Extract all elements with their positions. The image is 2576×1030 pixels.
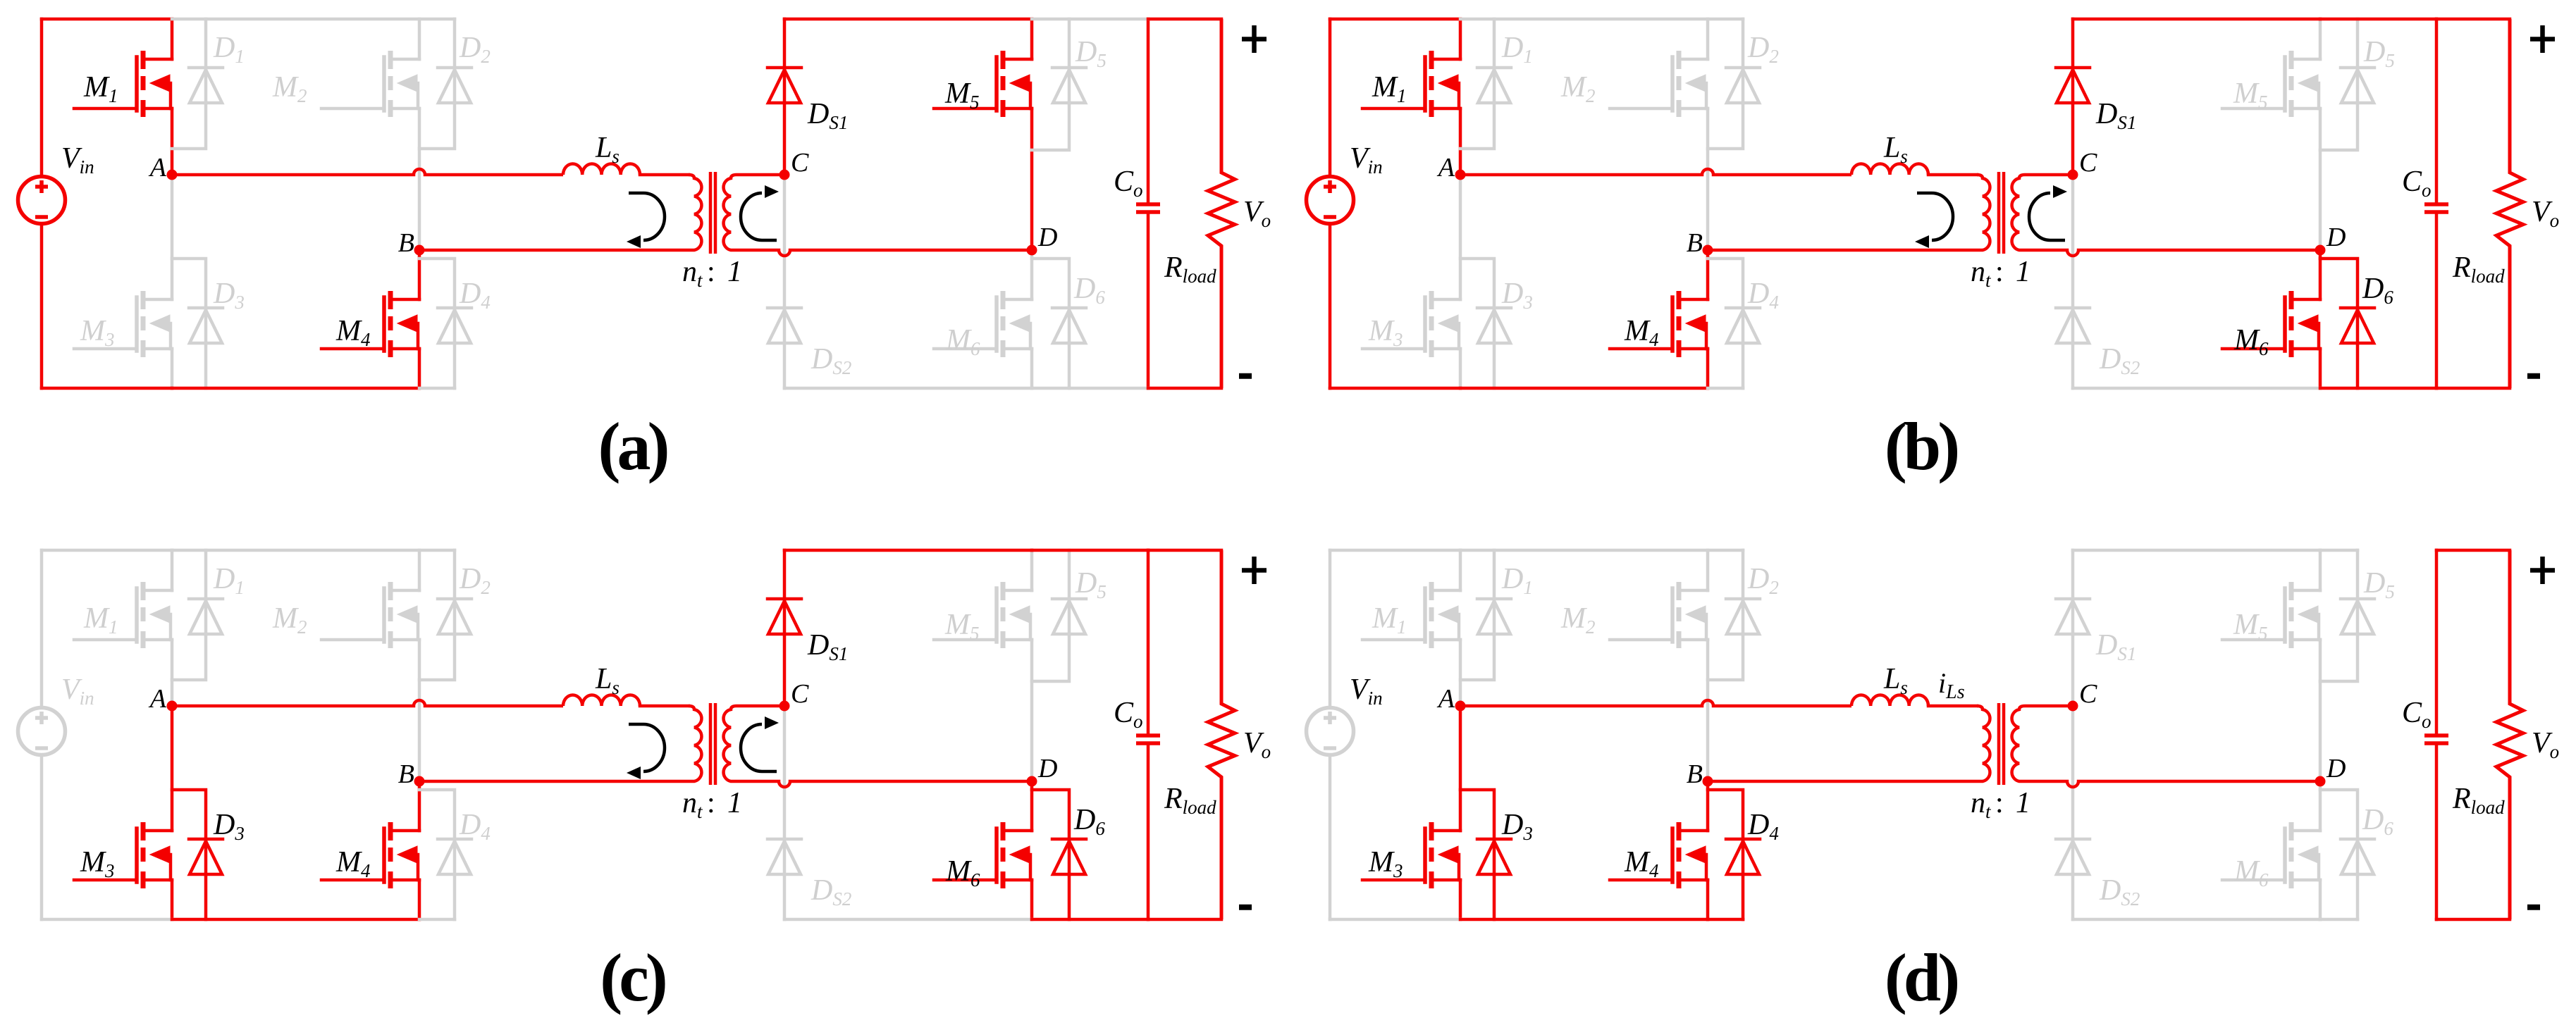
secondary current direction arrow xyxy=(2029,193,2065,240)
node A xyxy=(167,701,178,712)
node D xyxy=(2315,245,2326,256)
diode D6 xyxy=(1032,259,1069,308)
output minus terminal xyxy=(2527,373,2540,379)
node C xyxy=(779,701,790,712)
diode D2 xyxy=(1742,550,1745,599)
wire: bottom rail Vin-M3 xyxy=(1330,918,1460,922)
diode D5 xyxy=(2356,19,2360,68)
node D xyxy=(1027,245,1037,256)
node B xyxy=(1703,245,1713,256)
node B xyxy=(414,776,425,787)
diode D3 xyxy=(172,790,206,839)
wire: node A to M3 drain xyxy=(1459,706,1462,831)
wire: M2 source to node B xyxy=(1706,640,1710,781)
wire: M3 source to bottom rail xyxy=(1459,349,1462,388)
transistor M2 xyxy=(1679,59,1708,108)
resistor Rload xyxy=(1208,19,1235,388)
wire: secondary top to node C xyxy=(2025,705,2073,708)
diode D6 xyxy=(2320,259,2358,308)
diode D6 xyxy=(1032,790,1069,839)
wire: M2 drain xyxy=(418,550,421,590)
svg-text:1: 1 xyxy=(727,256,742,288)
svg-text:D: D xyxy=(2326,223,2346,252)
inductor Ls xyxy=(1851,695,1928,706)
wire: secondary top to node C xyxy=(2025,173,2073,177)
wire: Ls to transformer primary xyxy=(640,173,689,177)
diode D1 xyxy=(1493,550,1496,599)
wire: Vin to top-left rail xyxy=(1329,550,1332,706)
diode DS2 xyxy=(2056,308,2090,343)
wire: top rail M5-D5 xyxy=(2320,549,2358,552)
wire: M4 source to bottom rail xyxy=(1706,880,1710,919)
capacitor Co xyxy=(2435,550,2439,919)
transistor M3 xyxy=(1431,831,1460,880)
wire: bottom rail Ds2-M6 xyxy=(2073,387,2320,390)
svg-text:D: D xyxy=(2326,754,2346,783)
wire: node D to M6 drain xyxy=(2319,250,2322,299)
wire: bottom rail M4-D4 xyxy=(1708,387,1743,390)
wire: top rail M1-D2 xyxy=(1460,549,1743,552)
wire: top rail Vin-M1 xyxy=(42,18,172,21)
node A xyxy=(1455,701,1466,712)
wire: node A to Ls (hop over M2 leg) xyxy=(172,700,563,706)
wire: top rail M5-Co xyxy=(1032,549,1148,552)
output minus terminal xyxy=(1239,373,1252,379)
svg-text:A: A xyxy=(1436,153,1455,182)
wire: bottom rail Co-Rload xyxy=(1148,387,1221,390)
primary current direction arrow xyxy=(629,193,665,240)
transistor M3 xyxy=(1431,299,1460,349)
transformer primary winding xyxy=(1977,706,1990,781)
node C xyxy=(2068,170,2078,180)
svg-text::: : xyxy=(1995,787,2004,819)
transformer secondary winding xyxy=(2012,706,2025,781)
transistor M1 xyxy=(1431,59,1460,108)
diode DS1 xyxy=(2071,550,2075,599)
diode D3 xyxy=(1460,259,1494,308)
diode DS1 xyxy=(783,19,787,68)
wire: top rail Ds1-M5 xyxy=(784,549,1032,552)
wire: M2 source to node B xyxy=(418,108,421,250)
inductor Ls xyxy=(563,163,640,175)
wire: bottom rail M6-Co xyxy=(1032,918,1148,922)
wire: Ls to transformer primary xyxy=(1928,705,1977,708)
svg-text:B: B xyxy=(1687,228,1703,258)
secondary current direction arrow xyxy=(741,193,777,240)
wire: bottom rail M3-M4 xyxy=(1460,918,1708,922)
wire: Vin to bottom rail xyxy=(1329,757,1332,919)
wire: M5 drain xyxy=(1030,550,1034,590)
wire: secondary bottom to node D (hop over Ds2 leg) xyxy=(2025,781,2320,787)
wire: M5 source to node D xyxy=(1030,108,1034,250)
voltage source Vin (a) xyxy=(18,177,66,224)
wire: bottom rail Vin-M3 xyxy=(42,918,172,922)
resistor Rload xyxy=(2496,550,2523,919)
node A xyxy=(167,170,178,180)
wire: top rail M1-D2 xyxy=(172,549,455,552)
inductor Ls xyxy=(1851,163,1928,175)
transistor M6 xyxy=(1003,831,1032,880)
transistor M2 xyxy=(390,590,419,640)
wire: bottom rail Vin-M3 xyxy=(1330,387,1460,390)
wire: secondary top to node C xyxy=(737,173,784,177)
wire: top rail M5-Co xyxy=(1032,18,1148,21)
wire: Vin to top-left rail xyxy=(40,19,44,175)
wire: M5 drain xyxy=(2319,550,2322,590)
wire: bottom rail M4-D4 xyxy=(419,387,455,390)
wire: node B to M4 drain xyxy=(1706,781,1710,831)
wire: Vin to bottom rail xyxy=(40,225,44,388)
diode DS2 xyxy=(2056,839,2090,874)
wire: M1 drain xyxy=(1459,550,1462,590)
output minus terminal xyxy=(2527,905,2540,910)
wire: node B to M4 drain xyxy=(1706,250,1710,299)
resistor Rload xyxy=(1208,550,1235,919)
wire: Vin to bottom rail xyxy=(1329,225,1332,388)
resistor Rload xyxy=(2496,19,2523,388)
wire: top rail Vin-M1 xyxy=(1330,549,1460,552)
transistor M6 xyxy=(1003,299,1032,349)
diode DS1 xyxy=(2071,19,2075,68)
transistor M5 xyxy=(2291,59,2320,108)
wire: node A to M3 drain xyxy=(171,175,174,299)
diode D1 xyxy=(204,550,208,599)
wire: bottom rail Ds2-M6 xyxy=(784,918,1032,922)
wire: bottom rail M6-Co xyxy=(1032,387,1148,390)
wire: primary bottom to node B xyxy=(1708,780,1977,783)
diode D4 xyxy=(419,790,455,839)
diode D1 xyxy=(1493,19,1496,68)
transistor M4 xyxy=(390,831,419,880)
svg-text:A: A xyxy=(148,153,167,182)
wire: M3 source to bottom rail xyxy=(171,349,174,388)
wire: node A to Ls (hop over M2 leg) xyxy=(1460,169,1851,175)
node C xyxy=(779,170,790,180)
transformer primary winding xyxy=(689,175,701,250)
diode D2 xyxy=(453,19,457,68)
wire: M2 drain xyxy=(1706,550,1710,590)
svg-text:D: D xyxy=(1037,754,1057,783)
diode D6 xyxy=(2320,790,2358,839)
wire: top rail Ds1-M5 xyxy=(784,18,1032,21)
wire: top rail Ds1-M5 xyxy=(2073,549,2320,552)
wire: top rail M1-D2 xyxy=(172,18,455,21)
node B xyxy=(1703,776,1713,787)
wire: M1 source to node A xyxy=(171,108,174,175)
capacitor Co xyxy=(1147,550,1150,919)
svg-text::: : xyxy=(707,256,715,288)
wire: M1 drain xyxy=(171,550,174,590)
transformer primary winding xyxy=(1977,175,1990,250)
transistor M4 xyxy=(390,299,419,349)
wire: node A to M3 drain xyxy=(1459,175,1462,299)
output minus terminal xyxy=(1239,905,1252,910)
transformer core xyxy=(1999,172,2004,254)
wire: node A to M3 drain xyxy=(171,706,174,831)
wire: M4 source to bottom rail xyxy=(418,880,421,919)
wire: node B to M4 drain xyxy=(418,781,421,831)
transistor M5 xyxy=(1003,59,1032,108)
wire: C to Ds2 xyxy=(783,175,787,308)
wire: M6 source to bottom rail xyxy=(2319,880,2322,919)
svg-text:C: C xyxy=(2079,148,2097,178)
wire: top rail Co-Rload xyxy=(1148,549,1221,552)
transistor M6 xyxy=(2291,831,2320,880)
transformer primary winding xyxy=(689,706,701,781)
svg-text:C: C xyxy=(2079,679,2097,709)
transformer core xyxy=(1999,703,2004,785)
wire: top rail M5-Co xyxy=(2320,18,2436,21)
svg-text:B: B xyxy=(398,228,414,258)
wire: bottom rail M4-D4 xyxy=(1708,918,1743,922)
transformer secondary winding xyxy=(724,175,737,250)
diode DS2 xyxy=(768,308,801,343)
output plus terminal xyxy=(2530,557,2555,584)
diode D5 xyxy=(1068,19,1071,68)
wire: C to Ds2 xyxy=(2071,175,2075,308)
wire: M6 source to bottom rail xyxy=(1030,349,1034,388)
wire: M4 source to bottom rail xyxy=(418,349,421,388)
svg-text::: : xyxy=(707,787,715,819)
transistor M2 xyxy=(390,59,419,108)
wire: M4 source to bottom rail xyxy=(1706,349,1710,388)
svg-text:1: 1 xyxy=(727,787,742,819)
output plus terminal xyxy=(2530,25,2555,53)
transformer core xyxy=(710,703,715,785)
wire: primary bottom to node B xyxy=(419,249,689,252)
diode D5 xyxy=(2356,550,2360,599)
wire: M1 source to node A xyxy=(1459,108,1462,175)
wire: Vin to top-left rail xyxy=(1329,19,1332,175)
wire: bottom rail Co-Rload xyxy=(2436,918,2510,922)
wire: bottom rail M6-Co xyxy=(2320,387,2436,390)
wire: top rail Vin-M1 xyxy=(1330,18,1460,21)
wire: bottom rail Vin-M3 xyxy=(42,387,172,390)
svg-text:C: C xyxy=(791,679,809,709)
voltage source Vin (b) xyxy=(1307,177,1354,224)
svg-text:(b): (b) xyxy=(1885,409,1957,484)
transistor M5 xyxy=(1003,590,1032,640)
primary current direction arrow xyxy=(629,724,665,771)
diode D4 xyxy=(419,259,455,308)
wire: node A to Ls (hop over M2 leg) xyxy=(172,169,563,175)
wire: bottom rail M3-M4 xyxy=(172,387,419,390)
wire: secondary bottom to node D (hop over Ds2 leg) xyxy=(737,781,1032,787)
diode D1 xyxy=(204,19,208,68)
diode D3 xyxy=(1460,790,1494,839)
wire: top rail Co-Rload xyxy=(2436,18,2510,21)
svg-text::: : xyxy=(1995,256,2004,288)
wire: M5 source to node D xyxy=(2319,640,2322,781)
transistor M5 xyxy=(2291,590,2320,640)
svg-text:D: D xyxy=(1037,223,1057,252)
wire: M2 source to node B xyxy=(1706,108,1710,250)
svg-text:(a): (a) xyxy=(598,409,667,484)
capacitor Co xyxy=(2435,19,2439,388)
wire: top rail Co-Rload xyxy=(2436,549,2510,552)
wire: bottom rail Ds2-M6 xyxy=(784,387,1032,390)
wire: M5 drain xyxy=(1030,19,1034,59)
svg-text:1: 1 xyxy=(2016,787,2030,819)
diode D4 xyxy=(1708,259,1743,308)
transistor M4 xyxy=(1679,299,1708,349)
wire: M1 drain xyxy=(171,19,174,59)
svg-text:1: 1 xyxy=(2016,256,2030,288)
diode D2 xyxy=(453,550,457,599)
transistor M3 xyxy=(143,831,172,880)
diode D3 xyxy=(172,259,206,308)
wire: top rail Ds1-M5 xyxy=(2073,18,2320,21)
wire: M6 source to bottom rail xyxy=(1030,880,1034,919)
wire: M1 source to node A xyxy=(1459,640,1462,706)
wire: M2 drain xyxy=(1706,19,1710,59)
diode DS1 xyxy=(783,550,787,599)
wire: M2 drain xyxy=(418,19,421,59)
transformer core xyxy=(710,172,715,254)
primary current direction arrow xyxy=(1917,193,1953,240)
wire: primary bottom to node B xyxy=(1708,249,1977,252)
wire: M3 source to bottom rail xyxy=(171,880,174,919)
wire: secondary top to node C xyxy=(737,705,784,708)
secondary current direction arrow xyxy=(741,724,777,771)
svg-text:A: A xyxy=(1436,684,1455,714)
node C xyxy=(2068,701,2078,712)
wire: C to Ds2 xyxy=(2071,706,2075,839)
voltage source Vin (c) xyxy=(18,708,66,755)
wire: M6 source to bottom rail xyxy=(2319,349,2322,388)
node D xyxy=(2315,776,2326,787)
svg-text:(d): (d) xyxy=(1885,940,1957,1015)
inductor Ls xyxy=(563,695,640,706)
svg-text:A: A xyxy=(148,684,167,714)
wire: M1 drain xyxy=(1459,19,1462,59)
transformer secondary winding xyxy=(2012,175,2025,250)
wire: top rail M1-D2 xyxy=(1460,18,1743,21)
wire: secondary bottom to node D (hop over Ds2 leg) xyxy=(737,250,1032,256)
transistor M1 xyxy=(143,59,172,108)
wire: node B to M4 drain xyxy=(418,250,421,299)
transistor M1 xyxy=(143,590,172,640)
wire: Ls to transformer primary xyxy=(1928,173,1977,177)
wire: M2 source to node B xyxy=(418,640,421,781)
svg-text:B: B xyxy=(1687,759,1703,789)
wire: top rail Co-Rload xyxy=(1148,18,1221,21)
wire: M5 drain xyxy=(2319,19,2322,59)
output plus terminal xyxy=(1242,557,1267,584)
wire: bottom rail Co-Rload xyxy=(1148,918,1221,922)
node D xyxy=(1027,776,1037,787)
wire: Vin to top-left rail xyxy=(40,550,44,706)
wire: primary bottom to node B xyxy=(419,780,689,783)
diode D5 xyxy=(1068,550,1071,599)
transformer secondary winding xyxy=(724,706,737,781)
wire: bottom rail Ds2-M6 xyxy=(2073,918,2320,922)
wire: bottom rail M4-D4 xyxy=(419,918,455,922)
capacitor Co xyxy=(1147,19,1150,388)
wire: top rail Vin-M1 xyxy=(42,549,172,552)
transistor M2 xyxy=(1679,590,1708,640)
diode D2 xyxy=(1742,19,1745,68)
wire: node D to M6 drain xyxy=(1030,781,1034,831)
wire: M1 source to node A xyxy=(171,640,174,706)
wire: M3 source to bottom rail xyxy=(1459,880,1462,919)
node A xyxy=(1455,170,1466,180)
wire: bottom rail M3-M4 xyxy=(172,918,419,922)
diode DS2 xyxy=(768,839,801,874)
wire: Ls to transformer primary xyxy=(640,705,689,708)
wire: M5 source to node D xyxy=(2319,108,2322,250)
transistor M1 xyxy=(1431,590,1460,640)
output plus terminal xyxy=(1242,25,1267,53)
wire: node A to Ls (hop over M2 leg) xyxy=(1460,700,1851,706)
svg-text:B: B xyxy=(398,759,414,789)
svg-text:(c): (c) xyxy=(600,940,665,1015)
wire: node D to M6 drain xyxy=(1030,250,1034,299)
wire: bottom rail M6-D6 xyxy=(2320,918,2358,922)
wire: C to Ds2 xyxy=(783,706,787,839)
wire: bottom rail M3-M4 xyxy=(1460,387,1708,390)
wire: secondary bottom to node D (hop over Ds2 leg) xyxy=(2025,250,2320,256)
wire: Vin to bottom rail xyxy=(40,757,44,919)
transistor M6 xyxy=(2291,299,2320,349)
transistor M4 xyxy=(1679,831,1708,880)
wire: M5 source to node D xyxy=(1030,640,1034,781)
diode D4 xyxy=(1708,790,1743,839)
voltage source Vin (d) xyxy=(1307,708,1354,755)
wire: node D to M6 drain xyxy=(2319,781,2322,831)
wire: bottom rail Co-Rload xyxy=(2436,387,2510,390)
node B xyxy=(414,245,425,256)
svg-text:C: C xyxy=(791,148,809,178)
transistor M3 xyxy=(143,299,172,349)
